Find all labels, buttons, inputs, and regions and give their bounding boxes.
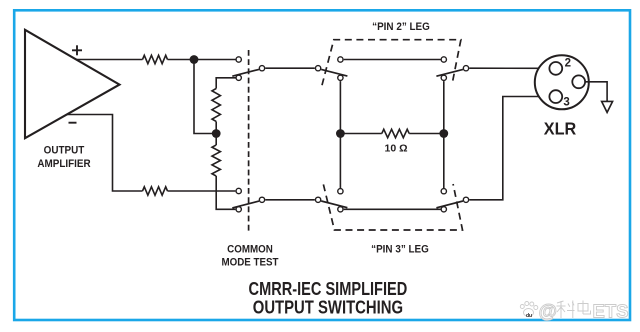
plus output pin label: [72, 45, 82, 55]
wire: plus output to R1: [76, 59, 142, 61]
switch S2 contact B1: [338, 57, 343, 62]
minus output pin label: [69, 122, 77, 124]
dashed boundary: pin 3 leg box: [323, 184, 462, 230]
XLR pin 1: [572, 75, 585, 88]
svg-text:MODE TEST: MODE TEST: [221, 257, 279, 269]
switch S4 pole P4: [259, 197, 264, 202]
svg-text:OUTPUT: OUTPUT: [44, 145, 85, 157]
op-amp U1 output amplifier: [25, 30, 120, 138]
wire: left crossover B2 down to E1: [339, 81, 341, 188]
wire: pole P4 to pole P5: [265, 199, 315, 201]
svg-text:10 Ω: 10 Ω: [384, 143, 407, 155]
wire: right lead of 10 ohm resistor: [409, 133, 444, 135]
node: left end of 10 ohm resistor: [336, 129, 345, 138]
resistor R2 (minus leg): [143, 187, 168, 195]
switch S4 contact D2: [236, 207, 241, 212]
wire: tap from plus junction down to divider midpoint: [194, 60, 216, 134]
svg-text:ETS: ETS: [593, 301, 629, 322]
XLR pin 3: [549, 90, 562, 103]
svg-text:du: du: [526, 313, 532, 319]
switch S1 contact A2: [236, 75, 241, 80]
switch S5 contact E1: [338, 189, 343, 194]
switch S4 contact D1: [236, 188, 241, 193]
svg-text:AMPLIFIER: AMPLIFIER: [37, 159, 91, 171]
switch S2 contact B2: [338, 75, 343, 80]
svg-text:“PIN 2” LEG: “PIN 2” LEG: [372, 21, 430, 33]
switch S3 lever: [436, 69, 463, 76]
svg-text:COMMON: COMMON: [227, 244, 273, 256]
wire: pole P1 to pole P2: [265, 67, 315, 69]
resistor R3 (divider upper): [212, 89, 220, 122]
wire: R2 to switch contact D1: [168, 190, 236, 192]
watermark glyph ke: [557, 301, 575, 319]
resistor R1 (plus leg): [143, 55, 168, 63]
XLR connector body: [535, 55, 589, 109]
switch S2 lever: [321, 69, 347, 76]
switch S1 lever: [232, 69, 259, 76]
switch S5 lever: [321, 201, 347, 208]
wire: left lead of 10 ohm resistor: [340, 133, 381, 135]
switch S1 contact A1: [236, 57, 241, 62]
svg-text:3: 3: [563, 96, 569, 108]
dashed boundary: pin 2 leg box: [322, 40, 461, 85]
resistor R5 10 ohm: [382, 129, 409, 137]
label OUTPUT AMPLIFIER: [37, 145, 91, 170]
dashed boundary: common mode test line: [248, 50, 250, 232]
wire: XLR pin 1 to ground: [585, 82, 607, 102]
switch S3 pole P3: [463, 66, 468, 71]
switch S6 contact F1: [441, 189, 446, 194]
wire: pin3 leg bottom link E2 to F2: [344, 208, 441, 210]
wire: pole P6 up to XLR pin 3: [469, 97, 549, 200]
label COMMON MODE TEST: [221, 244, 279, 269]
switch S6 contact F2: [441, 207, 446, 212]
wire: pole P3 to XLR pin 2: [469, 67, 549, 69]
svg-text:2: 2: [565, 58, 571, 70]
node: junction on plus wire: [190, 55, 199, 64]
switch S5 pole P5: [315, 197, 320, 202]
switch S1 pole P1: [259, 66, 264, 71]
watermark paw icon: [520, 302, 538, 317]
watermark glyph dian: [578, 301, 591, 315]
switch S3 contact C2: [441, 75, 446, 80]
svg-text:“PIN 3” LEG: “PIN 3” LEG: [371, 244, 429, 256]
wire: between R3 and R4: [215, 122, 217, 146]
switch S3 contact C1: [441, 57, 446, 62]
switch S6 lever: [436, 201, 463, 208]
node: divider midpoint: [212, 129, 221, 138]
switch S6 pole P6: [463, 197, 468, 202]
switch S2 pole P2: [315, 66, 320, 71]
svg-text:XLR: XLR: [544, 119, 577, 139]
switch S4 lever: [232, 201, 259, 208]
resistor R4 (divider lower): [212, 145, 220, 176]
wire: bottom of divider chain to contact D2: [216, 176, 235, 209]
XLR pin 2: [549, 62, 562, 75]
svg-text:OUTPUT SWITCHING: OUTPUT SWITCHING: [253, 297, 403, 318]
title CMRR-IEC SIMPLIFIED OUTPUT SWITCHING: [249, 278, 408, 318]
svg-text:@: @: [539, 302, 558, 323]
node: right end of 10 ohm resistor: [439, 129, 448, 138]
wire: R1 to switch contact A1: [168, 59, 236, 61]
ground: [602, 101, 613, 112]
wire: right crossover C2 down to F1: [443, 81, 445, 188]
switch S5 contact E2: [338, 207, 343, 212]
wire: pin2 leg top link B1 to C1: [344, 59, 441, 61]
wire: contact A2 to top of divider chain: [216, 78, 236, 89]
wire: minus output down and right to R2: [67, 115, 143, 192]
